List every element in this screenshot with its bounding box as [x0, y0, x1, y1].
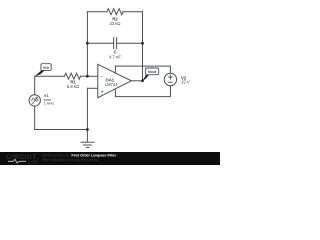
svg-text:6.8 kΩ: 6.8 kΩ — [67, 84, 79, 89]
svg-text:Vin: Vin — [43, 65, 50, 70]
wire feedback right vertical — [142, 12, 144, 81]
junction output node — [141, 79, 144, 82]
wire V- supply to V2 bottom — [115, 86, 170, 97]
svg-text:33 kΩ: 33 kΩ — [109, 21, 120, 26]
junction inverting input node — [86, 75, 89, 78]
resistor R1 — [65, 73, 81, 79]
voltage source V2 circle — [164, 73, 176, 85]
op-amp OA1 triangle — [98, 64, 132, 97]
svg-text:LAB: LAB — [28, 159, 38, 164]
junction ground node — [86, 128, 89, 131]
voltage source V1 circle — [29, 95, 40, 106]
wire V+ supply to V2 top — [115, 66, 170, 73]
svg-text:LM741: LM741 — [105, 82, 118, 87]
wire feedback left vertical — [86, 12, 88, 77]
V1 sine symbol — [32, 98, 38, 101]
svg-text:15 V: 15 V — [181, 80, 190, 85]
footer bar — [0, 152, 220, 165]
node Vout flag — [143, 68, 159, 81]
wire top-left from feedback left vertical to R2 — [87, 11, 107, 13]
V2 minus symbol — [169, 81, 173, 83]
wire op-amp non-inverting input to ground vertical — [87, 87, 97, 89]
ground — [81, 142, 94, 147]
op-amp V- pin stub — [114, 90, 116, 97]
junction cap left — [86, 42, 89, 45]
V2 plus symbol — [169, 75, 173, 79]
wire op-amp output — [131, 80, 142, 82]
wire V1 to ground node — [35, 129, 88, 131]
svg-text:1 kHz: 1 kHz — [44, 101, 54, 106]
junction cap right — [141, 42, 144, 45]
wire capacitor right lead — [117, 42, 143, 44]
wire Vin node to R1 — [35, 75, 65, 77]
node Vin flag — [35, 64, 52, 76]
wire top-right from R2 to feedback right vertical — [123, 11, 143, 13]
svg-text:joshbrown02713 : First Order L: joshbrown02713 : First Order Lowpass Fil… — [41, 153, 117, 157]
svg-text:−: − — [101, 74, 104, 80]
wire Vin node down to V1 top — [34, 76, 36, 95]
resistor R2 — [107, 9, 123, 15]
svg-text:Vout: Vout — [148, 69, 157, 74]
svg-text:+: + — [101, 90, 104, 96]
svg-text:4.7 nF: 4.7 nF — [109, 55, 121, 60]
capacitor C plates — [114, 38, 117, 49]
wire R1 to op-amp inverting input — [81, 75, 98, 77]
op-amp V+ pin stub — [114, 66, 116, 73]
svg-text:http://circuitlab.com/c8tc79c3: http://circuitlab.com/c8tc79c3xe95a — [42, 158, 98, 162]
wire ground vertical — [86, 88, 88, 129]
wire ground stem — [86, 130, 88, 143]
V1 arrow — [32, 97, 37, 103]
wire capacitor left lead — [87, 42, 113, 44]
wire V1 bottom down — [34, 106, 36, 129]
